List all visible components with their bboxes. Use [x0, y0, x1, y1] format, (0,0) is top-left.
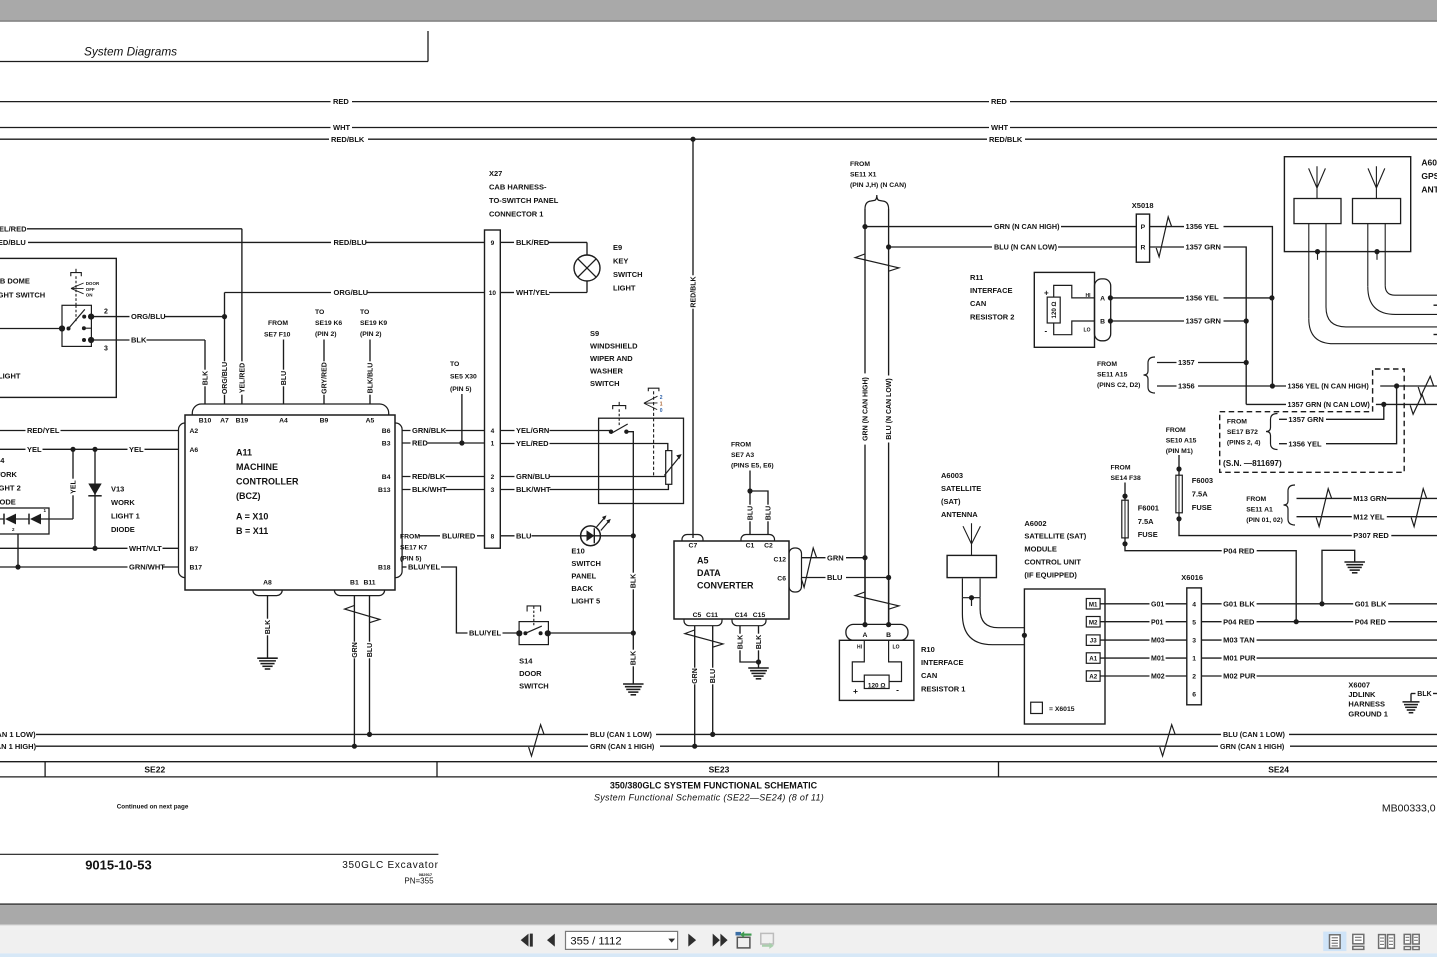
GPS antenna A6001 box	[1284, 157, 1410, 252]
wire RED/YEL to A11 A2	[0, 430, 179, 432]
ground X6007	[1410, 694, 1412, 702]
svg-text:BLK: BLK	[131, 336, 147, 345]
svg-text:C11: C11	[706, 612, 718, 619]
wire 1356 YEL from R11 A	[1110, 297, 1272, 299]
svg-text:WORK: WORK	[111, 498, 135, 507]
svg-text:B1: B1	[350, 579, 359, 586]
wire ORG/BLU drop to A11 A7	[224, 317, 226, 404]
wire YEL to A11 A6	[0, 448, 179, 450]
svg-text:GRN: GRN	[692, 668, 699, 684]
svg-text:B10: B10	[199, 417, 212, 424]
wire N4 box to GRN/WHT	[17, 534, 19, 567]
svg-text:C2: C2	[764, 543, 773, 550]
svg-text:RED/BLK: RED/BLK	[331, 135, 365, 144]
svg-text:RED: RED	[991, 97, 1007, 106]
wire BLK from S9 down	[626, 432, 633, 633]
svg-text:CAN: CAN	[970, 299, 986, 308]
svg-text:CAB DOME: CAB DOME	[0, 277, 30, 286]
svg-text:FROM: FROM	[400, 533, 420, 540]
svg-text:SWITCH: SWITCH	[590, 379, 620, 388]
wire GRN/WHT to A11 B17	[0, 566, 179, 568]
wire 1357 to junction	[1157, 362, 1246, 364]
svg-text:CAB HARNESS-: CAB HARNESS-	[489, 183, 547, 192]
svg-text:SE11 X1: SE11 X1	[850, 172, 877, 179]
svg-text:BLU (CAN 1 LOW): BLU (CAN 1 LOW)	[0, 730, 36, 739]
wire M02 PUR	[1201, 675, 1437, 677]
toolbar next-page button	[688, 934, 696, 947]
svg-text:ORG/BLU: ORG/BLU	[222, 362, 229, 394]
brace SE11 A1	[1284, 485, 1296, 525]
wire 1357 GRN N CAN LOW row	[1246, 403, 1437, 405]
svg-text:8: 8	[491, 533, 495, 540]
svg-text:1: 1	[660, 401, 663, 407]
svg-text:RESISTOR 1: RESISTOR 1	[921, 685, 965, 694]
svg-text:M03 TAN: M03 TAN	[1223, 636, 1255, 645]
svg-text:7.5A: 7.5A	[1192, 489, 1208, 498]
S9 selector fan 2/1/0	[644, 396, 658, 409]
pdf bottom strip	[0, 953, 1437, 957]
svg-text:(PINS E5, E6): (PINS E5, E6)	[731, 463, 774, 470]
svg-text:3: 3	[104, 345, 108, 352]
svg-text:C1: C1	[746, 543, 755, 550]
svg-text:4: 4	[1192, 601, 1196, 608]
wire M03 TAN	[1201, 639, 1437, 641]
wire P307 RED	[1179, 519, 1437, 536]
wire GRN A5 C5 to CAN high	[694, 626, 696, 747]
toolbar first-page button	[521, 934, 529, 947]
controller A11 body	[185, 415, 395, 590]
svg-text:BLK: BLK	[631, 651, 638, 665]
svg-text:1357 GRN: 1357 GRN	[1186, 317, 1221, 326]
svg-text:M01 PUR: M01 PUR	[1223, 654, 1256, 663]
wire BLU/YEL from A11 B18	[402, 566, 406, 568]
svg-text:LIGHT: LIGHT	[0, 372, 21, 381]
resistor R11 body	[1034, 272, 1094, 347]
svg-text:BLK/RED: BLK/RED	[516, 238, 550, 247]
svg-text:B = X11: B = X11	[236, 526, 268, 536]
svg-text:GRN/WHT: GRN/WHT	[129, 563, 165, 572]
wire BLU A5 C6	[802, 577, 827, 579]
A6003 antenna box	[947, 555, 996, 577]
svg-text:B: B	[1100, 319, 1105, 326]
wire 1356 YEL SE17 B72	[1279, 443, 1288, 445]
svg-text:BLU/YEL: BLU/YEL	[408, 563, 441, 572]
svg-text:BLK/WHT: BLK/WHT	[412, 485, 447, 494]
svg-text:Continued on next page: Continued on next page	[117, 804, 189, 811]
wire 1356 YEL N CAN HIGH row	[1272, 385, 1437, 387]
svg-text:(PINS 2, 4): (PINS 2, 4)	[1227, 439, 1261, 446]
wire BLU X27-8 to E10	[500, 535, 633, 537]
svg-text:2: 2	[104, 308, 108, 315]
svg-text:FROM: FROM	[1166, 427, 1186, 434]
twist symbol A5 right	[801, 548, 817, 587]
svg-text:A8: A8	[263, 579, 272, 586]
svg-text:V13: V13	[111, 485, 124, 494]
S9 coil bracket	[613, 406, 626, 410]
svg-text:350/380GLC SYSTEM FUNCTIONAL S: 350/380GLC SYSTEM FUNCTIONAL SCHEMATIC	[610, 781, 818, 791]
svg-text:LIGHT 1: LIGHT 1	[111, 512, 140, 521]
svg-text:SE11 A15: SE11 A15	[1097, 372, 1128, 379]
svg-text:1356 YEL (N CAN HIGH): 1356 YEL (N CAN HIGH)	[1288, 382, 1370, 391]
svg-text:M2: M2	[1089, 619, 1098, 626]
svg-text:BLU/RED: BLU/RED	[442, 531, 476, 540]
svg-text:WINDSHIELD: WINDSHIELD	[590, 342, 638, 351]
svg-text:GRN/BLK: GRN/BLK	[412, 426, 447, 435]
svg-text:YEL: YEL	[129, 445, 144, 454]
svg-text:C6: C6	[777, 576, 786, 583]
svg-text:ON: ON	[86, 292, 93, 297]
twist symbol above R10	[855, 592, 899, 609]
svg-text:-: -	[1045, 327, 1048, 336]
svg-text:MODULE: MODULE	[1024, 545, 1057, 554]
toolbar previous-view button	[736, 932, 742, 936]
resistor R10 body	[839, 640, 914, 700]
svg-text:0: 0	[660, 408, 663, 414]
svg-text:C14: C14	[735, 612, 748, 619]
svg-text:(IF EQUIPPED): (IF EQUIPPED)	[1024, 571, 1077, 580]
svg-text:ORG/BLU: ORG/BLU	[334, 288, 369, 297]
svg-text:WASHER: WASHER	[590, 367, 624, 376]
svg-text:RED/BLK: RED/BLK	[690, 276, 697, 307]
wire GRN A5 C12	[802, 557, 827, 559]
svg-text:GRN: GRN	[827, 553, 844, 562]
svg-text:1: 1	[491, 441, 495, 448]
svg-text:P307 RED: P307 RED	[1353, 531, 1389, 540]
svg-text:A5: A5	[366, 417, 375, 424]
wire dome lamp feed	[0, 328, 62, 330]
svg-text:TO: TO	[450, 361, 459, 368]
svg-text:FROM: FROM	[268, 320, 288, 327]
svg-text:S9: S9	[590, 329, 599, 338]
wire RED bus	[0, 101, 331, 103]
node ORG/BLU junction	[222, 314, 227, 319]
controller A11 connector bubbles	[192, 404, 388, 424]
svg-text:B11: B11	[363, 579, 375, 586]
S14 bracket	[527, 606, 541, 612]
wire 1357 GRN SE17 B72	[1279, 418, 1288, 420]
wire BLU A5 C11 to CAN low	[712, 626, 714, 735]
svg-text:GRN: GRN	[352, 642, 359, 658]
svg-text:SE23: SE23	[709, 765, 730, 775]
switch S contact box	[62, 305, 91, 346]
wire WHT/YEL E9 to X27-10	[586, 281, 588, 293]
svg-text:WHT: WHT	[333, 123, 350, 132]
svg-text:B4: B4	[382, 474, 391, 481]
svg-text:ORG/BLU: ORG/BLU	[131, 312, 166, 321]
svg-text:GRN (CAN 1 HIGH): GRN (CAN 1 HIGH)	[590, 742, 655, 751]
svg-text:C15: C15	[753, 612, 766, 619]
svg-text:1356 YEL: 1356 YEL	[1288, 439, 1322, 448]
svg-text:A1: A1	[1089, 656, 1097, 663]
svg-text:-: -	[896, 684, 899, 694]
svg-text:1356 YEL: 1356 YEL	[1186, 294, 1220, 303]
svg-text:4: 4	[491, 428, 495, 435]
toolbar next-view button (disabled)	[761, 933, 774, 944]
wire GRN N CAN HIGH to X5018 P	[865, 226, 992, 228]
ground A8	[257, 657, 278, 659]
svg-text:RED/BLK: RED/BLK	[989, 135, 1023, 144]
svg-text:PANEL: PANEL	[571, 572, 596, 581]
svg-text:(S.N. —811697): (S.N. —811697)	[1223, 459, 1282, 468]
svg-text:SWITCH: SWITCH	[613, 270, 643, 279]
node GRN junction	[862, 224, 867, 229]
wire BLU N CAN LOW vertical	[888, 209, 890, 623]
svg-text:1357: 1357	[1178, 358, 1195, 367]
wire A8 BLK to ground	[267, 596, 269, 659]
svg-text:+: +	[853, 686, 858, 696]
svg-text:YEL: YEL	[70, 479, 77, 493]
svg-text:FROM: FROM	[850, 161, 870, 168]
svg-text:BLU (N CAN LOW): BLU (N CAN LOW)	[994, 243, 1058, 252]
svg-text:LIGHT SWITCH: LIGHT SWITCH	[0, 291, 45, 300]
svg-text:1357 GRN: 1357 GRN	[1288, 415, 1323, 424]
toolbar facing layout button	[1379, 935, 1386, 949]
svg-text:G01: G01	[1151, 601, 1164, 608]
svg-text:YEL: YEL	[27, 445, 42, 454]
cable end ticks	[1434, 304, 1437, 306]
svg-text:TO: TO	[360, 309, 369, 316]
wire B1 GRN to CAN high	[353, 596, 355, 747]
svg-text:X6007: X6007	[1348, 680, 1370, 689]
svg-text:2: 2	[660, 395, 663, 401]
wire P04 RED from F6001	[1125, 544, 1296, 622]
svg-text:SE17 K7: SE17 K7	[400, 545, 427, 552]
svg-text:1356: 1356	[1178, 382, 1195, 391]
svg-text:SE17 B72: SE17 B72	[1227, 429, 1258, 436]
svg-text:SE14 F38: SE14 F38	[1111, 475, 1141, 482]
svg-text:6: 6	[1192, 692, 1196, 699]
wire BLU CAN 1 LOW	[36, 733, 588, 735]
svg-text:BLK: BLK	[631, 574, 638, 588]
node E10-BLK junction	[631, 533, 636, 538]
svg-text:INTERFACE: INTERFACE	[970, 286, 1013, 295]
svg-text:SWITCH: SWITCH	[519, 681, 549, 690]
GPS cable left pair	[1308, 224, 1310, 319]
svg-text:A6002: A6002	[1024, 519, 1046, 528]
svg-text:C7: C7	[689, 543, 698, 550]
svg-text:WORK: WORK	[0, 470, 18, 479]
svg-text:FROM: FROM	[1111, 465, 1131, 472]
svg-text:F6003: F6003	[1192, 476, 1213, 485]
pdf toolbar	[0, 925, 1437, 954]
svg-text:HI: HI	[857, 644, 863, 650]
svg-text:355 / 1112: 355 / 1112	[570, 936, 621, 948]
svg-text:BLU: BLU	[281, 371, 288, 385]
svg-text:A = X10: A = X10	[236, 512, 268, 522]
svg-text:1: 1	[1192, 656, 1196, 663]
svg-text:A7: A7	[220, 417, 229, 424]
svg-text:SE5 X30: SE5 X30	[450, 374, 477, 381]
wire 1357 GRN from X5018	[1150, 247, 1247, 404]
wire S14 to BLK junction	[548, 632, 633, 634]
svg-text:E10: E10	[571, 546, 584, 555]
wire WHT/VLT to A11 B7	[0, 547, 179, 549]
switch S9 box	[599, 418, 684, 503]
wire GRN CAN 1 HIGH	[36, 745, 588, 747]
svg-text:LIGHT: LIGHT	[613, 284, 636, 293]
svg-text:A60: A60	[1421, 157, 1437, 167]
svg-text:B17: B17	[190, 565, 203, 572]
wire M13 GRN	[1297, 497, 1437, 499]
svg-text:(SAT): (SAT)	[941, 497, 961, 506]
svg-text:RED/BLU: RED/BLU	[0, 238, 26, 247]
satellite module A6002 body	[1024, 589, 1105, 724]
wire BLK/RED X27-9 to E9	[500, 241, 514, 243]
A5 data converter body	[674, 541, 789, 619]
S14 blade and contacts	[525, 626, 541, 633]
svg-text:YEL/GRN: YEL/GRN	[516, 426, 549, 435]
brace SE11 X1	[865, 195, 889, 209]
fuse F6003	[1178, 455, 1180, 475]
wire 1357 GRN from R11 B	[1110, 320, 1246, 322]
svg-text:BLU (CAN 1 LOW): BLU (CAN 1 LOW)	[1223, 730, 1285, 739]
svg-text:A2: A2	[1089, 674, 1097, 681]
svg-text:M1: M1	[1089, 601, 1098, 608]
wire 1356 YEL from X5018	[1150, 227, 1273, 386]
wire RED/BLK drop to A5 C7	[692, 139, 694, 538]
svg-text:RESISTOR 2: RESISTOR 2	[970, 312, 1014, 321]
svg-text:FROM: FROM	[731, 442, 751, 449]
svg-text:B9: B9	[320, 417, 329, 424]
svg-text:GRN (N CAN HIGH): GRN (N CAN HIGH)	[862, 377, 869, 441]
wire M01 PUR	[1201, 657, 1437, 659]
svg-text:WHT/VLT: WHT/VLT	[129, 544, 162, 553]
svg-text:A11: A11	[236, 448, 252, 458]
svg-text:CAN: CAN	[921, 671, 937, 680]
wire from N4 box to YEL drop	[41, 518, 73, 520]
S9 potentiometer	[666, 451, 672, 485]
svg-text:(BCZ): (BCZ)	[236, 491, 261, 501]
wire P04 RED	[1201, 621, 1437, 623]
wire BLK to ground	[632, 633, 634, 684]
svg-text:(PIN 01, 02): (PIN 01, 02)	[1246, 517, 1283, 524]
svg-text:LIGHT 5: LIGHT 5	[571, 597, 600, 606]
svg-text:CONVERTER: CONVERTER	[697, 581, 754, 591]
svg-text:(PIN M1): (PIN M1)	[1166, 448, 1193, 455]
svg-text:FROM: FROM	[1227, 418, 1247, 425]
svg-text:PN=355: PN=355	[404, 877, 434, 886]
svg-text:BLU: BLU	[765, 506, 772, 520]
svg-text:A: A	[1100, 295, 1105, 302]
svg-text:BLK: BLK	[737, 635, 744, 649]
svg-text:BLK: BLK	[202, 371, 209, 385]
twist symbol CAN right	[1160, 725, 1176, 756]
svg-text:BACK: BACK	[571, 584, 593, 593]
svg-text:B7: B7	[190, 546, 199, 553]
toolbar single-page layout button (active)	[1323, 932, 1346, 952]
wire ORG/BLU to X27 pin 10	[225, 292, 332, 294]
svg-text:9: 9	[491, 240, 495, 247]
wire BLU to R10 B	[888, 578, 890, 624]
twist symbols M13/M12	[1316, 489, 1332, 527]
svg-text:ANTENNA: ANTENNA	[941, 510, 978, 519]
svg-text:5: 5	[1192, 619, 1196, 626]
svg-text:(PIN 2): (PIN 2)	[360, 331, 382, 338]
svg-text:+: +	[1044, 289, 1049, 298]
svg-text:OFF: OFF	[86, 287, 95, 292]
svg-text:3: 3	[491, 487, 495, 494]
svg-text:1357 GRN (N CAN LOW): 1357 GRN (N CAN LOW)	[1288, 400, 1371, 409]
svg-text:A6: A6	[190, 447, 199, 454]
wire GRN N CAN HIGH vertical	[864, 209, 866, 623]
toolbar last-page button	[713, 934, 720, 947]
svg-text:DOOR: DOOR	[519, 669, 542, 678]
svg-text:C5: C5	[693, 612, 702, 619]
wire BLU N CAN LOW to X5018 R	[889, 246, 992, 248]
wire 1356 to junction	[1157, 385, 1272, 387]
GPS cable right pair	[1367, 224, 1369, 287]
svg-text:TO-SWITCH PANEL: TO-SWITCH PANEL	[489, 196, 559, 205]
brace SE17 B72	[1266, 414, 1278, 450]
svg-text:B6: B6	[382, 428, 391, 435]
svg-text:YEL/RED: YEL/RED	[0, 224, 27, 233]
svg-text:M03: M03	[1151, 638, 1165, 645]
svg-text:9015-10-53: 9015-10-53	[85, 857, 152, 872]
svg-text:WIPER AND: WIPER AND	[590, 354, 633, 363]
svg-text:HARNESS: HARNESS	[1348, 700, 1385, 709]
svg-text:BLK/BLU: BLK/BLU	[367, 363, 374, 394]
fuse F6001	[1124, 483, 1126, 501]
twist symbol C5/C11	[685, 630, 723, 647]
svg-text:J3: J3	[1090, 638, 1097, 645]
svg-text:LO: LO	[1084, 328, 1091, 334]
brace SE11 A15	[1144, 357, 1156, 393]
wire RED/BLK bus	[0, 138, 329, 140]
toolbar prev-page button	[547, 934, 555, 947]
node RED/BLK junction	[690, 137, 695, 142]
svg-text:M02 PUR: M02 PUR	[1223, 672, 1256, 681]
svg-text:RED: RED	[333, 97, 349, 106]
R10 internals	[852, 640, 864, 681]
wire WHT bus	[0, 127, 331, 129]
svg-text:10: 10	[489, 290, 497, 297]
svg-text:CONTROLLER: CONTROLLER	[236, 477, 299, 487]
cab dome light switch enclosure	[0, 258, 116, 397]
svg-text:CONTROL UNIT: CONTROL UNIT	[1024, 558, 1081, 567]
svg-text:DIODE: DIODE	[0, 498, 16, 507]
svg-text:A6003: A6003	[941, 471, 963, 480]
svg-text:P04 RED: P04 RED	[1223, 546, 1255, 555]
wire GRN to R10 A	[864, 558, 866, 623]
svg-text:BLK: BLK	[265, 620, 272, 634]
svg-text:SE11 A1: SE11 A1	[1246, 507, 1273, 514]
A6003 cable to A6002	[962, 598, 1024, 645]
wire YEL drop to work light 2 diode	[72, 449, 74, 519]
svg-text:P04 RED: P04 RED	[1223, 617, 1255, 626]
svg-text:B: B	[886, 632, 891, 639]
antenna symbol 1	[1309, 166, 1326, 198]
wires A6002 to X6016	[1100, 603, 1187, 605]
GPS shield nodes	[1315, 249, 1320, 254]
svg-text:SE7 F10: SE7 F10	[264, 331, 291, 338]
svg-text:RED/BLK: RED/BLK	[412, 472, 446, 481]
svg-text:SE24: SE24	[1268, 765, 1289, 775]
svg-text:R: R	[1140, 245, 1145, 252]
svg-text:G01 BLK: G01 BLK	[1223, 599, 1255, 608]
svg-text:P01: P01	[1151, 619, 1164, 626]
svg-text:SE7 A3: SE7 A3	[731, 452, 754, 459]
svg-text:FROM: FROM	[1097, 361, 1117, 368]
antenna symbol 2	[1368, 166, 1385, 198]
svg-text:1357 GRN: 1357 GRN	[1186, 243, 1221, 252]
svg-text:(PIN 5): (PIN 5)	[450, 386, 472, 393]
svg-text:BLU: BLU	[516, 531, 531, 540]
svg-text:BLU: BLU	[747, 506, 754, 520]
ground A5	[748, 667, 769, 669]
svg-text:M13 GRN: M13 GRN	[1353, 494, 1386, 503]
wire B11 BLU to CAN low	[369, 596, 371, 735]
svg-text:System Functional Schematic (S: System Functional Schematic (SE22—SE24) …	[594, 793, 824, 803]
